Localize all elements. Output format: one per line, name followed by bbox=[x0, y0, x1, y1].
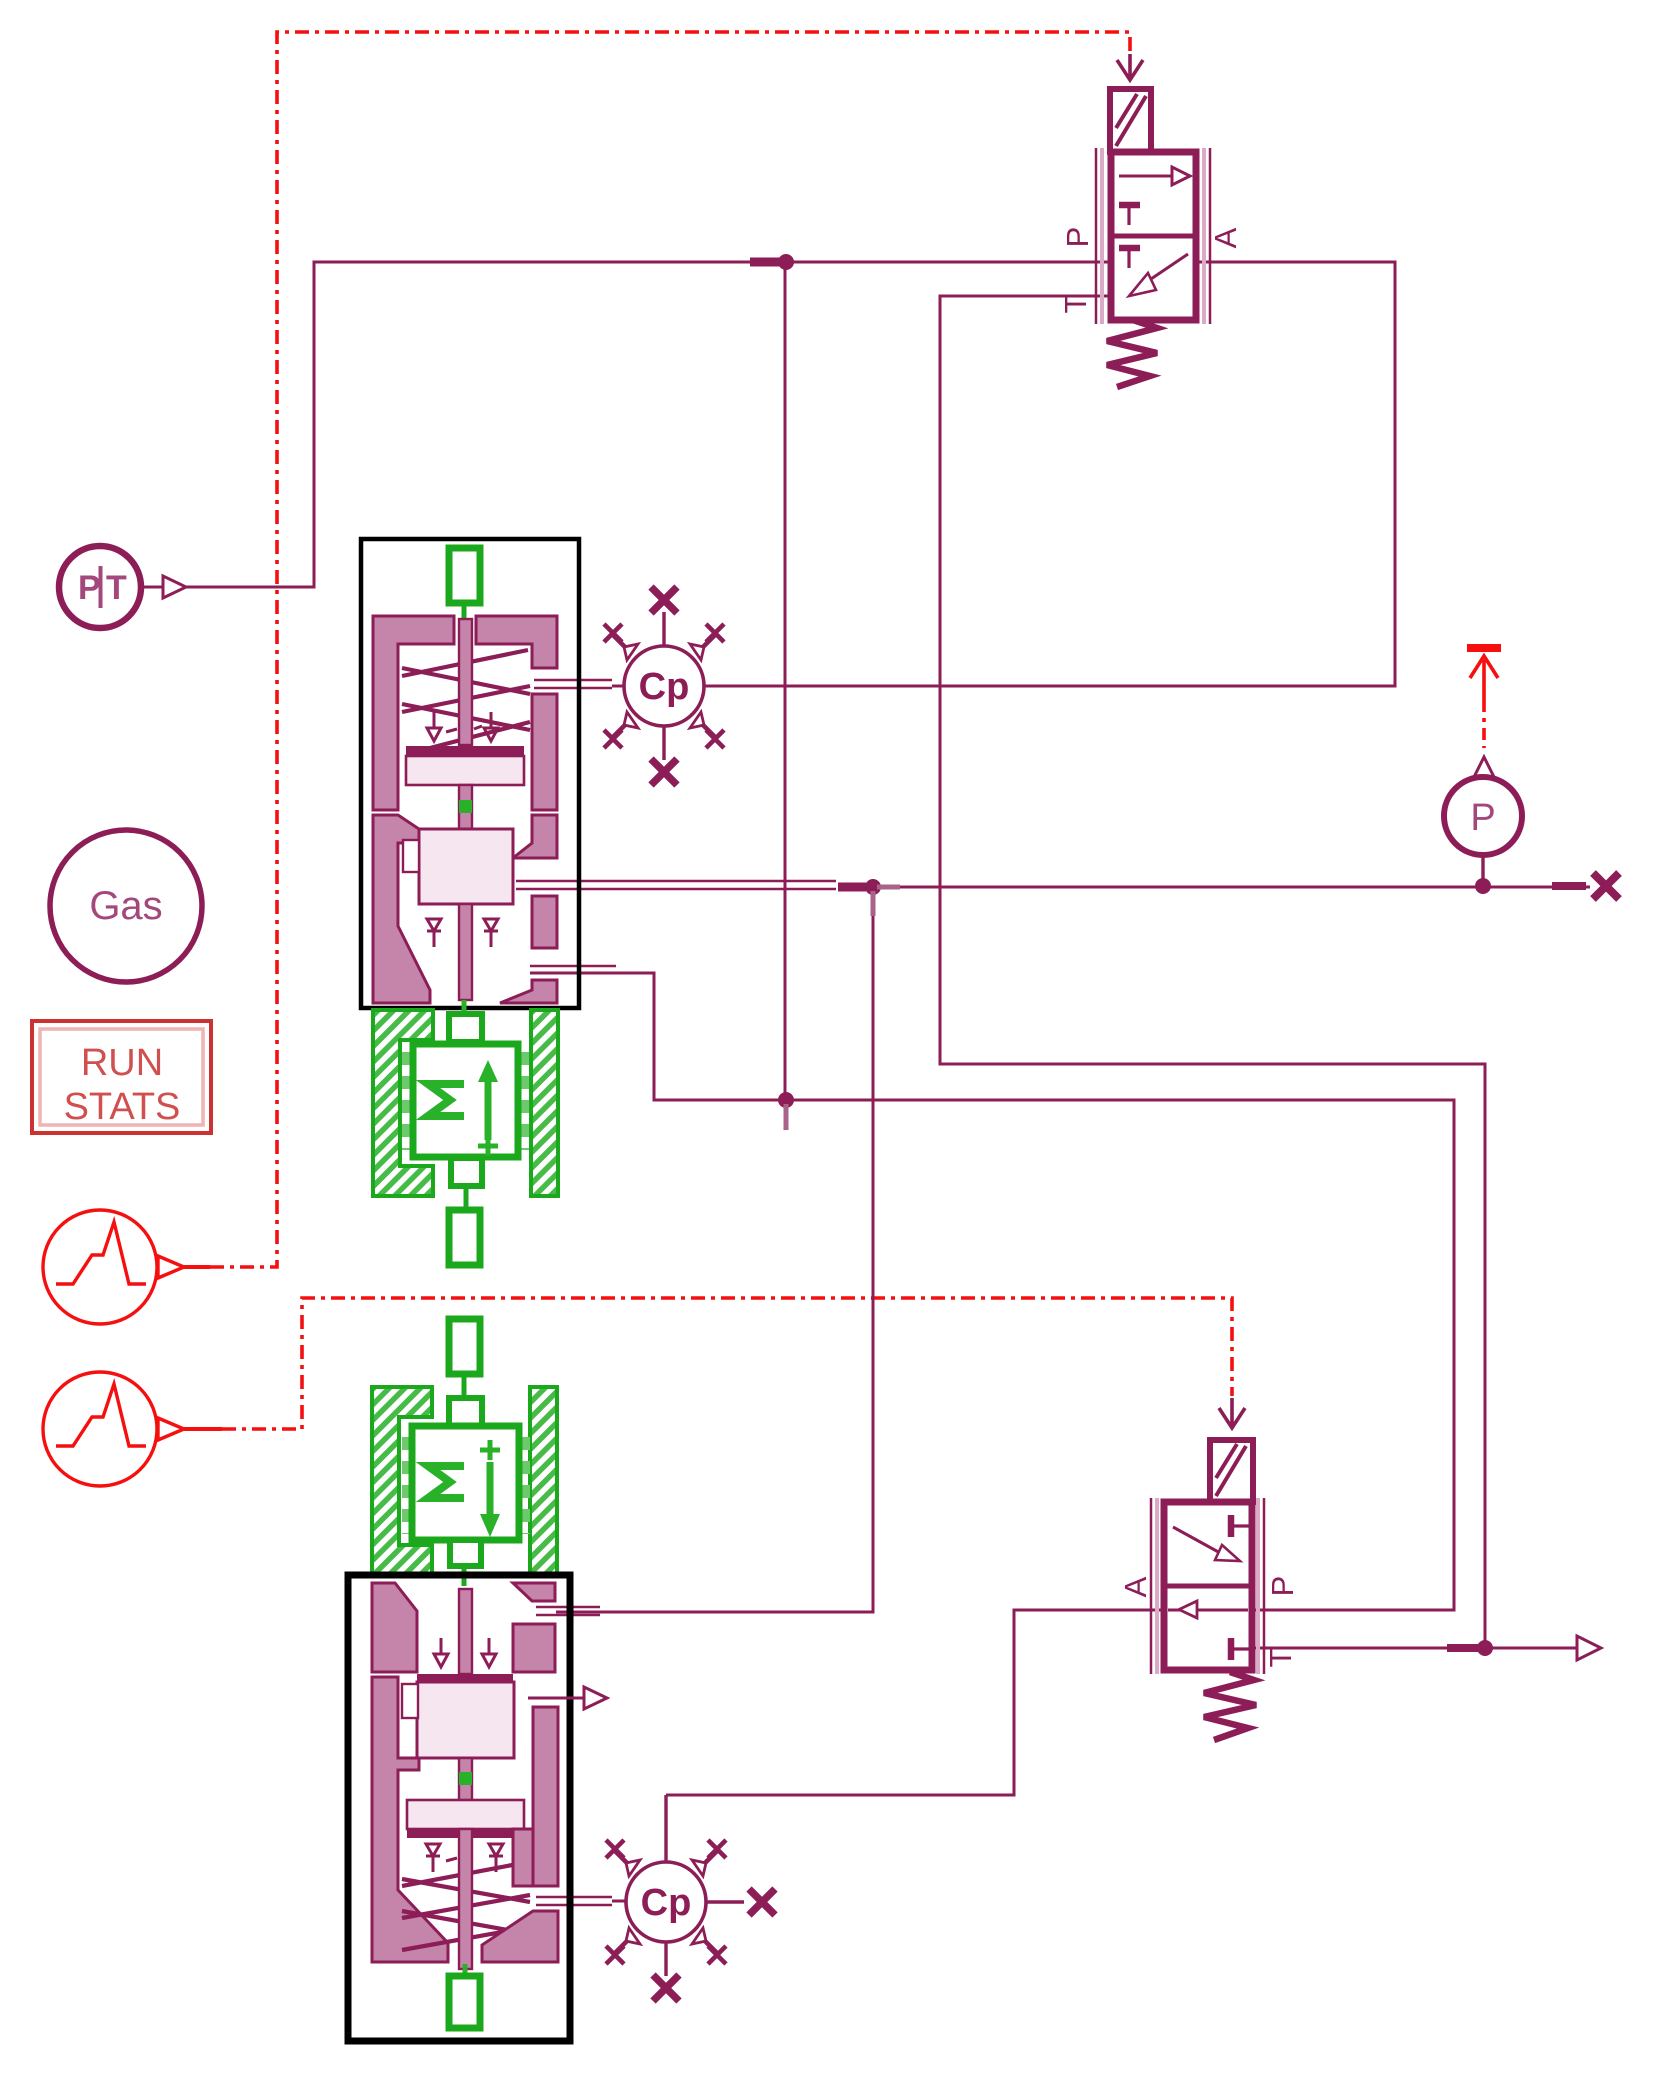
PV1 pilot stem bbox=[459, 619, 472, 745]
gas properties component GAS1 bbox=[50, 830, 202, 982]
arrow into solenoid of valve V2 bbox=[1219, 1398, 1245, 1428]
PV2 main poppet bbox=[417, 1682, 514, 1758]
PV1 lower housing right upper block bbox=[513, 815, 557, 858]
valve V1: 3/2 solenoid directional valve (top right) bbox=[1058, 89, 1243, 387]
V2 bottom cell flow path with arrow to port A bbox=[1168, 1609, 1248, 1612]
PV2 second plate bbox=[407, 1800, 524, 1829]
Cp2 bottom heat port bbox=[664, 1942, 667, 1976]
ACT1 mass body M bbox=[413, 1044, 518, 1157]
pressure sensor PS1 with atmospheric reference arrow bbox=[1444, 648, 1522, 894]
signal source SG1 (piecewise linear signal) bbox=[43, 1210, 184, 1324]
V1 bottom cell flow path with arrow bbox=[1148, 254, 1188, 281]
svg-text:T: T bbox=[1263, 1648, 1298, 1667]
wire: upper assembly mid port channel to node J3 bbox=[516, 881, 836, 889]
poppet valve assembly PV1 (upper, enclosed in black supercomponent frame) bbox=[361, 539, 579, 1012]
solenoid coil of V2 bbox=[1210, 1440, 1253, 1502]
wire: pneumatic line from sensor PT1 up to valve V1 port P bbox=[186, 262, 1111, 587]
valve V2: 3/2 solenoid directional valve (bottom right) bbox=[1118, 1440, 1300, 1740]
PV2 pilot flow arrows (down) bbox=[434, 1638, 496, 1667]
PV1 lower housing left block bbox=[373, 815, 430, 1003]
PV2 lower stem with green coupling bbox=[459, 1758, 472, 1803]
arrow into solenoid of valve V1 bbox=[1117, 54, 1143, 80]
svg-text:T: T bbox=[106, 569, 127, 607]
Cp1 bottom heat port bbox=[662, 726, 665, 760]
V1 side stroke lines bbox=[1096, 148, 1210, 324]
junction node J1 bbox=[750, 258, 780, 267]
Cp2 top line to valve V2 bbox=[664, 1795, 667, 1862]
V1 top cell flow arrow bbox=[1119, 175, 1172, 178]
svg-text:T: T bbox=[1058, 294, 1093, 313]
signal source SG2 (piecewise linear signal) bbox=[43, 1372, 184, 1486]
junction node J2 bbox=[778, 1092, 794, 1108]
ACT2 top rod end port bbox=[449, 1319, 480, 1374]
PV2 poppet dark seat bar bbox=[417, 1674, 513, 1682]
ACT1 bottom port block bbox=[451, 1158, 482, 1186]
V2 return spring bbox=[1204, 1672, 1256, 1740]
poppet valve assembly PV2 (lower, enclosed in black supercomponent frame) bbox=[348, 1575, 607, 2041]
ACT1 top port block bbox=[449, 1014, 482, 1042]
wire: chamber Cp2 top line across and up to valve V2 port A bbox=[666, 1610, 1164, 1795]
PV1 upper housing right block bbox=[476, 616, 557, 668]
wire: valve V1 port T line down and across to vent line of valve V2 bbox=[940, 296, 1485, 1648]
wire: valve V2 port T vent line with junction J4 bbox=[1252, 1647, 1577, 1650]
wire: valve V1 port A line down to chamber Cp1 line bbox=[705, 262, 1395, 686]
svg-text:Cp: Cp bbox=[641, 1882, 692, 1924]
svg-text:P: P bbox=[1470, 797, 1495, 839]
PV2 right inner step block bbox=[513, 1829, 533, 1886]
ACT1 friction dashed guides bbox=[406, 1052, 525, 1150]
PV2 bottom green coupling and rod end bbox=[463, 1964, 468, 1978]
svg-text:STATS: STATS bbox=[64, 1086, 181, 1128]
PV1 upper housing left block bbox=[373, 616, 454, 810]
Cp1 top heat port bbox=[662, 612, 665, 646]
PV2 top stem bbox=[459, 1589, 472, 1674]
pneumatic chamber Cp2 (lower) bbox=[606, 1795, 775, 2001]
linear actuator ACT2 (lower, mass with friction and motion direction down) bbox=[372, 1319, 557, 1586]
ACT1 bottom rod end port bbox=[449, 1210, 480, 1265]
ACT2 top port block bbox=[449, 1398, 482, 1426]
Cp2 right heat port bbox=[706, 1900, 744, 1903]
ACT1 left hatched guide bbox=[373, 1010, 433, 1196]
V1 return spring bbox=[1107, 320, 1157, 387]
ACT2 left hatched guide bbox=[372, 1387, 432, 1574]
wire: vertical branch from node J1 down to node J2 bbox=[784, 262, 787, 1100]
PV2 bottom right seat block bbox=[482, 1911, 558, 1962]
V2 bottom cell blocked port symbol bbox=[1228, 1638, 1235, 1660]
PV1 pilot flow arrows (down) bbox=[427, 712, 498, 741]
vent arrow at end of T line bbox=[1577, 1636, 1601, 1660]
ACT2 friction dashed guides bbox=[406, 1437, 526, 1534]
solenoid coil of V1 bbox=[1110, 89, 1151, 152]
Cp1 corner thermal ports (arrow + cross) bbox=[604, 624, 724, 748]
V2 top cell blocked port symbol bbox=[1228, 1515, 1235, 1537]
PV1 pilot plate bbox=[406, 746, 524, 756]
wire: red dash-dot signal line from signal source SG1 to solenoid of valve V1 bbox=[168, 32, 1130, 1267]
ACT1 right hatched guide bbox=[531, 1010, 558, 1196]
PV1 main poppet bbox=[419, 829, 513, 904]
PV1 stem with green coupling bbox=[459, 785, 472, 830]
PV1 top green rod port bbox=[449, 548, 480, 603]
wire: red dash-dot signal line from signal source SG2 to solenoid of valve V2 bbox=[184, 1298, 1232, 1429]
run statistics block RUNSTATS bbox=[32, 1021, 211, 1133]
V2 side stroke lines bbox=[1151, 1498, 1264, 1674]
PV2 upper housing left block bbox=[372, 1583, 417, 1672]
ACT2 right hatched guide bbox=[530, 1387, 557, 1574]
wire: upper assembly bottom port down to node J2 and across to valve V2 port P bbox=[530, 973, 1454, 1610]
Cp2 corner thermal ports (arrow + cross) bbox=[606, 1840, 726, 1964]
PV2 upper housing right block bbox=[513, 1583, 555, 1601]
wire: chamber Cp2 port to lower assembly spring chamber bbox=[536, 1897, 625, 1905]
svg-text:RUN: RUN bbox=[81, 1042, 163, 1084]
sensor PT1 (pressure/temperature pickup) bbox=[59, 546, 186, 628]
plug X1 (closed end) bbox=[1593, 873, 1619, 899]
PV2 chamber flow arrows (up) bbox=[426, 1844, 503, 1872]
PV1 lower stem bbox=[459, 904, 472, 1000]
svg-text:Gas: Gas bbox=[89, 884, 162, 928]
svg-text:P: P bbox=[78, 569, 101, 607]
ACT2 bottom port block bbox=[450, 1540, 481, 1566]
ACT2 mass body M bbox=[412, 1426, 519, 1540]
junction node J4 on vent line bbox=[1477, 1640, 1493, 1656]
wire: node J3 down to lower assembly top port bbox=[556, 887, 873, 1612]
svg-text:P: P bbox=[1265, 1576, 1300, 1597]
PV2 lower housing right column bbox=[533, 1707, 558, 1886]
svg-text:A: A bbox=[1208, 227, 1243, 248]
PV2 frame bbox=[348, 1575, 570, 2041]
svg-text:A: A bbox=[1118, 1576, 1153, 1597]
PV2 poppet outlet with vent arrow bbox=[528, 1697, 584, 1700]
PV1 frame bbox=[361, 539, 579, 1008]
valve V1 body bbox=[1111, 152, 1196, 320]
svg-text:P: P bbox=[1060, 227, 1095, 248]
ACT1 motion arrow up with plus bbox=[485, 1080, 492, 1140]
PV1 pilot spring bbox=[402, 650, 530, 748]
junction node J3 bbox=[865, 879, 881, 895]
valve V2 body bbox=[1164, 1502, 1252, 1670]
PV2 bottom stem bbox=[459, 1829, 472, 1969]
linear actuator ACT1 (upper, mass with friction and motion direction up) bbox=[373, 1010, 558, 1265]
V1 top cell blocked port symbol bbox=[1119, 202, 1140, 209]
pneumatic chamber Cp1 (upper) bbox=[604, 587, 724, 785]
PV1 poppet flow arrows (up) bbox=[427, 919, 498, 947]
wire: node J3 to plug X1 with pressure sensor PS1 tee bbox=[873, 886, 1590, 889]
V1 bottom cell blocked port symbol bbox=[1119, 245, 1140, 252]
ACT2 motion arrow down with plus bbox=[487, 1462, 494, 1516]
PV1 lower housing right lower block bbox=[532, 896, 557, 948]
PV2 right mid block bbox=[513, 1624, 555, 1672]
PV2 main spring bbox=[402, 1862, 530, 1950]
wire: chamber Cp1 port to upper piston assembly spring chamber bbox=[534, 680, 625, 688]
svg-text:Cp: Cp bbox=[639, 666, 690, 708]
V2 top cell flow path with arrow bbox=[1173, 1527, 1222, 1554]
PV2 lower housing left block bbox=[372, 1677, 448, 1962]
PV1 lower housing bottom right block bbox=[500, 980, 557, 1003]
